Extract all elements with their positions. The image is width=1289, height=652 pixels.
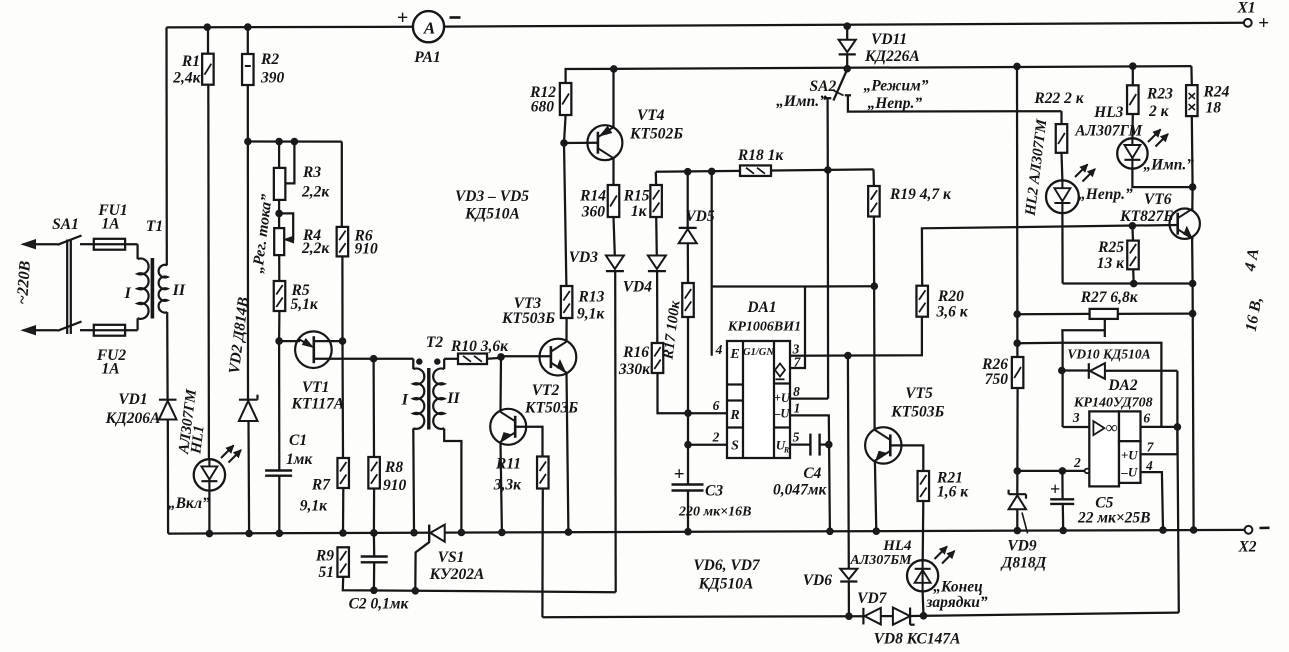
wire R2 bottom to node and VD2 [247, 85, 249, 400]
wire R13 top to R12/VT4 node [564, 143, 566, 286]
svg-text:I: I [124, 285, 132, 302]
svg-text:+: + [397, 7, 408, 29]
svg-text:13 к: 13 к [1097, 255, 1125, 272]
svg-text:E: E [729, 347, 739, 362]
svg-text:R19 4,7 к: R19 4,7 к [889, 186, 952, 203]
svg-text:КД510А: КД510А [464, 206, 520, 223]
svg-text:~220В: ~220В [14, 260, 34, 305]
wire VD3 to pulse line [614, 271, 617, 592]
svg-text:„Имп.”: „Имп.” [776, 93, 827, 110]
diode VD2 Д814В (zener) [239, 399, 258, 401]
svg-text:КТ503Б: КТ503Б [501, 310, 555, 327]
resistor R6 910 [341, 142, 343, 227]
terminal X1 [1244, 19, 1252, 27]
wire VT1 B1 to T2 primary [374, 358, 414, 360]
wire VD4 to R16 [656, 271, 658, 343]
svg-text:КТ827Б: КТ827Б [1119, 208, 1173, 225]
node bus DA1 pin1 [827, 528, 834, 535]
wire R19 bottom to VT5 collector [873, 217, 876, 430]
svg-text:VT5: VT5 [905, 385, 933, 402]
svg-text:8: 8 [793, 384, 800, 399]
svg-text:КТ502Б: КТ502Б [629, 126, 683, 143]
svg-text:PA1: PA1 [414, 49, 440, 66]
node R3-R4 [276, 210, 283, 217]
svg-text:2: 2 [712, 430, 720, 445]
svg-text:3: 3 [1072, 410, 1080, 425]
svg-text:1к: 1к [631, 203, 648, 220]
svg-text:АЛ307ГМ: АЛ307ГМ [1074, 123, 1143, 140]
resistor R17 100к [682, 283, 694, 317]
svg-text:VD9: VD9 [1007, 538, 1037, 555]
wire bottom rail X2 bus [168, 530, 1244, 534]
svg-text:5,1к: 5,1к [291, 296, 319, 313]
svg-text:9,1к: 9,1к [577, 306, 605, 323]
resistor R21 1,6к [918, 471, 930, 501]
svg-text:КР1006ВИ1: КР1006ВИ1 [727, 320, 801, 335]
svg-text:X2: X2 [1237, 539, 1256, 556]
svg-text:DA1: DA1 [746, 299, 776, 316]
svg-text:1мк: 1мк [286, 451, 313, 468]
svg-text:3,6 к: 3,6 к [936, 304, 969, 321]
wire lower output line (R11 to DA2 output riser) [542, 616, 863, 617]
svg-text:А: А [423, 19, 435, 38]
transistor VT2 КТ503Б [490, 409, 526, 445]
diode VD6 КД510А [840, 569, 857, 580]
wire to DA2 label box [1017, 342, 1062, 345]
resistor R7 9,1к [341, 341, 344, 458]
node bus VD2 [246, 530, 253, 537]
svg-text:2,4к: 2,4к [172, 70, 201, 87]
resistor R22 2к [1060, 111, 1062, 124]
node VD8 / HL4 [920, 613, 927, 620]
svg-text:зарядки”: зарядки” [925, 594, 987, 611]
svg-text:R3: R3 [302, 164, 321, 181]
svg-text:750: 750 [985, 371, 1009, 388]
svg-text:R20: R20 [937, 288, 964, 305]
wire output riser to DA2 pin6 [1177, 427, 1178, 613]
svg-text:R10 3,6к: R10 3,6к [450, 338, 509, 355]
transistor VT4 КТ502Б (PNP) [587, 125, 622, 160]
node bus VD9 [1014, 527, 1021, 534]
wire VT5 emitter to bus [875, 461, 876, 531]
svg-text:390: 390 [260, 70, 285, 87]
node VT1 B2 / R6 / R7 [339, 338, 346, 345]
wire VD1 to bottom bus corner [167, 420, 170, 534]
resistor R1 2,4к [207, 27, 209, 54]
wire SA2-Имп contact down to DA1 pin8 [827, 170, 830, 399]
DA1 pin 4 [711, 171, 713, 286]
wire R11 bottom down across bus to lower line [541, 489, 544, 618]
resistor R8 910 [372, 359, 375, 457]
svg-text:1: 1 [794, 401, 801, 416]
transistor VT5 КТ503Б [865, 427, 901, 463]
svg-text:„Конец: „Конец [933, 579, 983, 596]
svg-text:КД206А: КД206А [105, 410, 161, 427]
resistor R19 4,7к [868, 186, 880, 217]
svg-text:T1: T1 [146, 218, 163, 235]
svg-text:R8: R8 [384, 459, 403, 476]
svg-text:R7: R7 [311, 477, 331, 494]
fuse FU1 1А [94, 239, 125, 250]
diode VD11 КД226А [844, 23, 851, 30]
svg-text:3,3к: 3,3к [493, 477, 522, 494]
diode VD7 (points left) [862, 608, 864, 625]
node VT6 emitter rail [1189, 280, 1196, 287]
svg-text:VS1: VS1 [438, 549, 465, 566]
thyristor VS1 КУ202А [428, 525, 430, 542]
resistor R13 9,1к [561, 286, 573, 318]
node pin3 line / VT5 branch [845, 352, 852, 359]
wire VD2 to bus [247, 421, 250, 533]
svg-text:„Вкл”: „Вкл” [168, 495, 210, 512]
resistor R12 680 [560, 83, 572, 115]
svg-text:R22 2 к: R22 2 к [1033, 90, 1084, 107]
svg-text:4: 4 [715, 342, 723, 357]
node R12 / VT4 base [561, 140, 568, 147]
node bus VT2 emitter [499, 529, 506, 536]
svg-text:VT4: VT4 [637, 107, 665, 124]
svg-text:R1: R1 [181, 53, 200, 70]
wire HL2 bottom to emitter rail [1061, 213, 1063, 283]
svg-text:VD8 КС147А: VD8 КС147А [874, 631, 961, 648]
diode VD1 КД206А [159, 399, 177, 401]
svg-text:C3: C3 [705, 483, 723, 500]
svg-text:КТ503Б: КТ503Б [890, 404, 944, 421]
svg-text:VT6: VT6 [1144, 191, 1172, 208]
wire HL3 bottom to VT6 collector node [1132, 169, 1192, 187]
resistor R18 1к [740, 165, 771, 176]
svg-text:–U: –U [773, 407, 790, 421]
svg-text:330к: 330к [618, 361, 651, 378]
resistor R2 390 [247, 27, 249, 54]
svg-text:G1/GN: G1/GN [743, 347, 774, 358]
wire VD10 right down to pin7 [1141, 371, 1178, 455]
svg-text:„Имп.”: „Имп.” [1143, 157, 1194, 174]
svg-text:2 к: 2 к [1148, 103, 1170, 120]
LED HL3 АЛ307ГМ [1131, 114, 1134, 138]
diode VD9 Д818Д (zener) [1009, 493, 1026, 495]
IC DA2 КР140УД708 label box [1063, 343, 1162, 427]
svg-text:R: R [783, 446, 790, 455]
svg-text:51: 51 [319, 564, 335, 581]
node VT1 B1 / R8 [370, 355, 377, 362]
wire T1 secondary bottom to VD1 [166, 312, 169, 400]
resistor R10 3,6к [458, 354, 487, 365]
svg-text:R24: R24 [1203, 84, 1230, 101]
svg-text:R18 1к: R18 1к [737, 147, 784, 164]
node bus T2 primary [411, 529, 418, 536]
node R2 top [245, 24, 252, 31]
node bus VT3 emitter [565, 529, 572, 536]
svg-text:S: S [731, 439, 739, 454]
svg-text:DA2: DA2 [1107, 377, 1138, 394]
svg-text:R13: R13 [578, 289, 605, 306]
wire VT3 emitter to bus [567, 373, 569, 532]
node pin2 rail / R26-VD9 [1014, 468, 1021, 475]
wire top bus left segment (+ rail to ammeter) [167, 26, 414, 29]
svg-text:1А: 1А [101, 216, 119, 233]
svg-text:5: 5 [793, 430, 800, 445]
wire R3 wiper tap [286, 142, 295, 184]
svg-text:0,047мк: 0,047мк [773, 482, 827, 499]
svg-text:КР140УД708: КР140УД708 [1073, 396, 1153, 411]
transistor VT1 КТ117А (unijunction) [295, 331, 332, 368]
svg-text:R23: R23 [1146, 86, 1173, 103]
resistor R15 1к [650, 185, 662, 217]
wire VT3 collector to R13 [565, 318, 567, 341]
svg-text:АЛ307БМ: АЛ307БМ [849, 553, 912, 568]
svg-text:Д818Д: Д818Д [1000, 555, 1048, 572]
svg-text:VD11: VD11 [871, 31, 907, 48]
wire T2 secondary bottom to VS1 anode node [444, 428, 461, 532]
resistor R23 2к [1130, 63, 1137, 70]
IC DA1 КР1006ВИ1 label box [712, 287, 805, 369]
wire R17 bottom to pin6/pin2 nodes and C3 [687, 317, 689, 485]
svg-text:360: 360 [581, 204, 606, 221]
svg-text:КД510А: КД510А [698, 576, 754, 593]
svg-text:R25: R25 [1097, 239, 1124, 256]
svg-text:HL4: HL4 [882, 538, 912, 554]
capacitor C3 220мк×16В [672, 483, 704, 485]
wire left vertical from top bus to T1 secondary [165, 27, 168, 265]
wire top bus right segment (ammeter to X1) [444, 23, 1244, 27]
svg-text:II: II [172, 282, 186, 299]
wire R18 rail y171 [656, 169, 874, 171]
svg-text:VD5: VD5 [685, 208, 715, 225]
svg-text:X1: X1 [1236, 0, 1255, 17]
svg-text:VD7: VD7 [857, 590, 888, 607]
svg-text:VD1: VD1 [118, 391, 147, 408]
wire HL1 to bus [208, 491, 210, 534]
resistor R5 5,1к [278, 255, 280, 281]
svg-text:–U: –U [1120, 465, 1138, 480]
node DA1 pin2 rail [685, 441, 692, 448]
svg-text:C1: C1 [289, 432, 307, 449]
diode VD8 КС147А (zener, points right) [893, 608, 910, 625]
wire emitter rail y283 [1063, 282, 1193, 284]
node HL3 / VT6 collector [1189, 184, 1196, 191]
svg-text:+: + [674, 464, 685, 485]
resistor R9 51 [337, 547, 349, 577]
wire R5 bottom to VT1 emitter node [278, 311, 281, 341]
diode VD5 КД510А [687, 172, 689, 228]
resistor R24 18 (wirewound) [1190, 66, 1193, 85]
node SA2 riser on R18 rail [825, 167, 832, 174]
svg-text:„Непр.”: „Непр.” [867, 95, 922, 112]
svg-text:R9: R9 [315, 548, 334, 565]
node VT6 base / R25 [1129, 223, 1136, 230]
node bus VS1 anode / T2 secondary [458, 529, 465, 536]
diode VD4 КД510А [648, 256, 666, 269]
wire R16 bottom to DA1 pin6 rail [658, 373, 689, 413]
svg-text:+U: +U [1121, 448, 1138, 463]
svg-text:1,6 к: 1,6 к [937, 484, 969, 501]
svg-text:КТ117А: КТ117А [291, 396, 345, 413]
node DA1 pin4 riser [708, 168, 715, 175]
ammeter PA1 [413, 11, 444, 42]
svg-text:220 мк×16В: 220 мк×16В [678, 505, 752, 520]
node C5 top [1059, 468, 1066, 475]
diode VD3 КД510А [606, 256, 624, 269]
svg-text:9,1к: 9,1к [300, 498, 328, 515]
svg-text:+U: +U [774, 391, 791, 405]
svg-text:2,2к: 2,2к [301, 184, 330, 201]
wire R14 to VD3 [614, 217, 615, 256]
svg-text:R: R [729, 408, 739, 423]
wire pulse line (R9/C2 bottom to VD3 leg) [343, 577, 616, 592]
capacitor C1 1мк [278, 341, 280, 470]
svg-text:910: 910 [383, 477, 407, 494]
wire T2 primary bottom to bus [412, 428, 415, 532]
node DA2 pin6 / output riser [1174, 424, 1181, 431]
wire VT5 base to R21 [891, 445, 924, 471]
svg-text:КД226А: КД226А [864, 48, 920, 65]
capacitor C2 0,1мк [361, 555, 388, 557]
resistor R20 3,6к [916, 286, 928, 317]
wire R15 to VD4 [655, 217, 658, 256]
svg-text:R27 6,8к: R27 6,8к [1080, 289, 1139, 306]
IC DA2 body [1089, 411, 1119, 486]
node bus C1 [276, 530, 283, 537]
node R19 / DA1 top-right rail [871, 283, 878, 290]
capacitor C5 22мк×25В [1061, 471, 1063, 499]
wire R18 rail right end down to R19 [872, 169, 875, 186]
diode VD10 КД510А (points left) [1062, 369, 1089, 371]
wire VT6 collector [1191, 187, 1194, 210]
transistor VT6 КТ827Б [1170, 209, 1200, 239]
svg-text:R11: R11 [495, 456, 521, 473]
node DA1 pin6 rail [685, 410, 692, 417]
svg-text:VD6, VD7: VD6, VD7 [693, 557, 761, 574]
node VT4 collector top [611, 66, 618, 73]
svg-text:VT1: VT1 [302, 379, 330, 396]
node VT1 emitter / R5 [276, 338, 283, 345]
resistor R14 360 [608, 185, 620, 217]
svg-text:VD10 КД510А: VD10 КД510А [1067, 347, 1150, 362]
node R1 top [204, 24, 211, 31]
wire R1 bottom to HL1 [207, 85, 210, 460]
resistor R3 2,2к [278, 142, 280, 168]
svg-text:R15: R15 [623, 188, 650, 205]
wire riser x1017 (top rail to R27/R26) [1016, 66, 1019, 357]
resistor R27 6,8к (trimmer) [1090, 309, 1118, 319]
node VD5 top [684, 168, 691, 175]
svg-text:2: 2 [1073, 455, 1081, 470]
LED HL4 АЛ307БМ [907, 560, 938, 591]
resistor R25 13к [1131, 226, 1134, 241]
wire R26 bottom to pin2 node and VD9 [1016, 388, 1019, 494]
LED HL1 АЛ307ГМ [194, 459, 225, 490]
wire R6 bottom to VT1 B2 node [341, 256, 343, 341]
node VD6 / VD7 [846, 613, 853, 620]
node bus C5 [1060, 527, 1067, 534]
wire R21 to HL4 across bus [922, 501, 925, 560]
node riser/DA2 box [1014, 340, 1021, 347]
svg-text:I: I [401, 392, 409, 409]
svg-text:1А: 1А [101, 361, 119, 378]
resistor R11 3,3к [537, 457, 549, 489]
svg-text:HL3: HL3 [1093, 104, 1124, 121]
resistor R16 330к [652, 343, 664, 373]
node R3 tap [291, 138, 298, 145]
svg-text:SA1: SA1 [52, 216, 79, 233]
svg-text:R2: R2 [260, 51, 279, 68]
node bus DA2 pin4 [1160, 527, 1167, 534]
node bus R8/C2 [371, 530, 378, 537]
wire VD5 to R17 [687, 244, 689, 284]
node bus VT6 emitter [1190, 527, 1197, 534]
wire VT6 emitter to rail and bus [1191, 237, 1194, 284]
svg-text:VD6: VD6 [803, 572, 833, 589]
svg-text:22 мк×25В: 22 мк×25В [1077, 510, 1151, 527]
svg-text:„Непр.”: „Непр.” [1078, 186, 1133, 203]
terminal X2 [1245, 526, 1253, 534]
svg-text:„Режим”: „Режим” [864, 78, 929, 95]
svg-text:VD4: VD4 [623, 279, 653, 296]
svg-text:C2 0,1мк: C2 0,1мк [349, 596, 410, 613]
svg-text:+: + [1258, 13, 1269, 34]
node R25 bottom [1130, 280, 1137, 287]
svg-text:КТ503Б: КТ503Б [524, 400, 578, 417]
node pulse/VS1 gate [412, 588, 419, 595]
resistor R26 750 [1012, 357, 1024, 388]
node bus HL1 [206, 530, 213, 537]
fuse FU2 1А [94, 325, 125, 336]
node bus VT5 emitter [873, 528, 880, 535]
svg-text:VD3: VD3 [569, 249, 599, 266]
svg-text:+: + [1050, 479, 1060, 499]
node y69 R27 riser [1014, 63, 1021, 70]
svg-text:VD3 – VD5: VD3 – VD5 [455, 188, 529, 205]
node VD10 anode [1059, 367, 1066, 374]
capacitor C4 0,047мк [809, 434, 811, 456]
node bus R7/R9 [340, 530, 347, 537]
node R3 top [276, 138, 283, 145]
wire pin3 node down across bus to VD6 [847, 356, 850, 569]
wire R20 top to VT6 base rail [922, 225, 1178, 286]
svg-text:VT2: VT2 [532, 382, 560, 399]
node riser/R27 [1014, 311, 1021, 318]
svg-text:680: 680 [531, 99, 555, 116]
svg-text:R14: R14 [579, 188, 606, 205]
svg-text:II: II [446, 390, 460, 407]
node R3 rail left [245, 138, 252, 145]
svg-text:∞: ∞ [1105, 418, 1117, 437]
svg-text:6: 6 [1143, 411, 1150, 426]
node pulse/C2 [371, 587, 378, 594]
resistor R4 2,2к (rheostat) [274, 228, 284, 255]
svg-text:910: 910 [355, 241, 379, 258]
svg-text:T2: T2 [426, 334, 443, 351]
svg-text:R16: R16 [622, 344, 649, 361]
svg-text:18: 18 [1206, 100, 1222, 117]
svg-text:2,2к: 2,2к [301, 240, 330, 257]
svg-text:C4: C4 [803, 465, 821, 482]
node bus C3 [685, 528, 692, 535]
IC DA1 body [727, 341, 790, 458]
wire R3 top rail [248, 140, 342, 142]
transistor VT3 КТ503Б [540, 339, 577, 376]
node R10 / VT3 base / VT2 collector [498, 354, 505, 361]
wire +line y69 from VT4 to right edge [614, 66, 1192, 69]
svg-text:КУ202А: КУ202А [429, 566, 485, 583]
wire DA1 label-box top-right rail [805, 285, 874, 288]
svg-text:4: 4 [1145, 458, 1153, 473]
svg-text:6: 6 [713, 398, 720, 413]
LED HL2 АЛ307ГМ [1060, 153, 1063, 181]
